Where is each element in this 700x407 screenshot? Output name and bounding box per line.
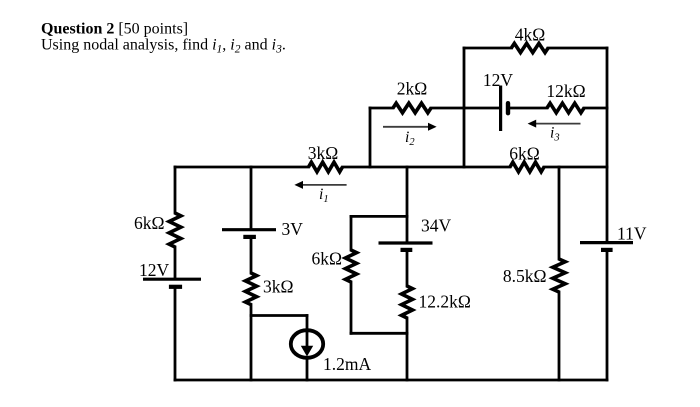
battery V 3V: short plate: [243, 235, 256, 239]
resistor R 6k top-right zigzag: [510, 162, 544, 172]
svg-text:34V: 34V: [421, 216, 452, 236]
svg-text:Using nodal analysis, find i1,: Using nodal analysis, find i1, i2 and i3…: [41, 37, 286, 56]
battery V 12V left: long plate: [143, 278, 201, 281]
svg-text:i3: i3: [550, 125, 560, 144]
wire 8.5k branch lower: [558, 292, 561, 380]
wire 34V branch lower: [406, 318, 409, 380]
wire 12k to right edge: [584, 107, 607, 110]
wire 8.5k branch upper: [558, 167, 561, 259]
svg-text:12.2kΩ: 12.2kΩ: [419, 292, 471, 312]
wire 34V branch upper: [406, 167, 409, 241]
wire current source bottom stub: [306, 358, 309, 380]
battery V 34V: long plate: [379, 241, 433, 244]
resistor R 3k horizontal zigzag: [309, 162, 343, 172]
current source arrow: [301, 331, 313, 357]
wire right edge lower: [606, 252, 609, 381]
svg-text:12V: 12V: [139, 260, 170, 280]
wire left edge lower: [174, 289, 177, 380]
svg-text:i2: i2: [405, 129, 415, 148]
svg-text:2kΩ: 2kΩ: [397, 79, 428, 99]
battery V 11V: long plate: [580, 241, 633, 244]
battery V 11V: short plate: [601, 248, 613, 252]
battery V 3V: long plate: [222, 228, 276, 231]
svg-text:11V: 11V: [617, 224, 647, 244]
resistor R 6k middle vertical zigzag: [345, 250, 356, 282]
svg-text:6kΩ: 6kΩ: [311, 249, 342, 269]
wire middle 6k branch top horizontal: [351, 215, 407, 218]
wire 2k branch left horizontal: [370, 107, 393, 110]
svg-text:3kΩ: 3kΩ: [263, 277, 294, 297]
resistor R 6k left vertical zigzag: [169, 213, 181, 247]
svg-text:Question 2 [50 points]: Question 2 [50 points]: [41, 21, 188, 38]
wire main row far left: [175, 166, 309, 169]
svg-text:6kΩ: 6kΩ: [134, 213, 165, 233]
wire 2k to node: [431, 107, 464, 110]
resistor R 2k zigzag: [393, 103, 431, 113]
wire from node to 12V battery: [464, 107, 500, 110]
wire 12V battery to 12k: [509, 107, 547, 110]
current arrow i3: [528, 120, 581, 128]
wire main row right: [544, 166, 607, 169]
wire main row middle: [343, 166, 511, 169]
wire middle 6k branch lower vertical: [350, 282, 353, 333]
battery V 34V: short plate: [401, 248, 413, 252]
svg-text:4kΩ: 4kΩ: [515, 25, 546, 45]
wire bottom rail: [175, 379, 607, 382]
svg-text:6kΩ: 6kΩ: [509, 144, 540, 164]
wire left edge mid: [174, 247, 177, 278]
resistor R 8.5k vertical zigzag: [553, 259, 565, 292]
wire current source top stub: [306, 316, 309, 332]
current arrow i2: [383, 123, 437, 131]
resistor R 3k vertical zigzag: [245, 273, 256, 305]
svg-text:3V: 3V: [282, 219, 304, 239]
wire left edge upper: [174, 167, 177, 213]
svg-text:i1: i1: [319, 186, 329, 205]
wire vertical left branch of top loop: [463, 48, 466, 167]
wire top row left of 4k: [464, 47, 512, 50]
resistor R 12.2k vertical zigzag: [402, 286, 413, 318]
resistor R 12k zigzag: [547, 103, 584, 113]
battery V 12V left: short plate: [169, 285, 182, 289]
current source I 1.2mA circle: [291, 330, 323, 358]
battery V 12V top: short plate: [506, 103, 510, 113]
wire 3V branch upper: [250, 167, 253, 228]
battery V 12V top: long plate: [499, 86, 502, 132]
svg-text:12kΩ: 12kΩ: [546, 81, 585, 101]
wire top row right of 4k: [548, 47, 607, 50]
resistor R 4k zigzag: [511, 43, 548, 52]
wire to current source: [251, 314, 307, 317]
wire 3V branch lower: [250, 305, 253, 381]
wire 3V to 3k: [250, 239, 253, 273]
wire middle 6k branch bottom horizontal: [351, 332, 407, 335]
svg-text:1.2mA: 1.2mA: [323, 354, 371, 374]
svg-text:8.5kΩ: 8.5kΩ: [503, 266, 547, 286]
wire 34V to 12.2k: [406, 253, 409, 287]
svg-text:12V: 12V: [483, 70, 514, 90]
svg-text:3kΩ: 3kΩ: [308, 143, 339, 163]
wire 2k branch vertical: [369, 108, 372, 167]
wire middle 6k branch upper vertical: [350, 216, 353, 250]
current arrow i1: [294, 181, 346, 189]
wire vertical right edge upper: [606, 48, 609, 241]
